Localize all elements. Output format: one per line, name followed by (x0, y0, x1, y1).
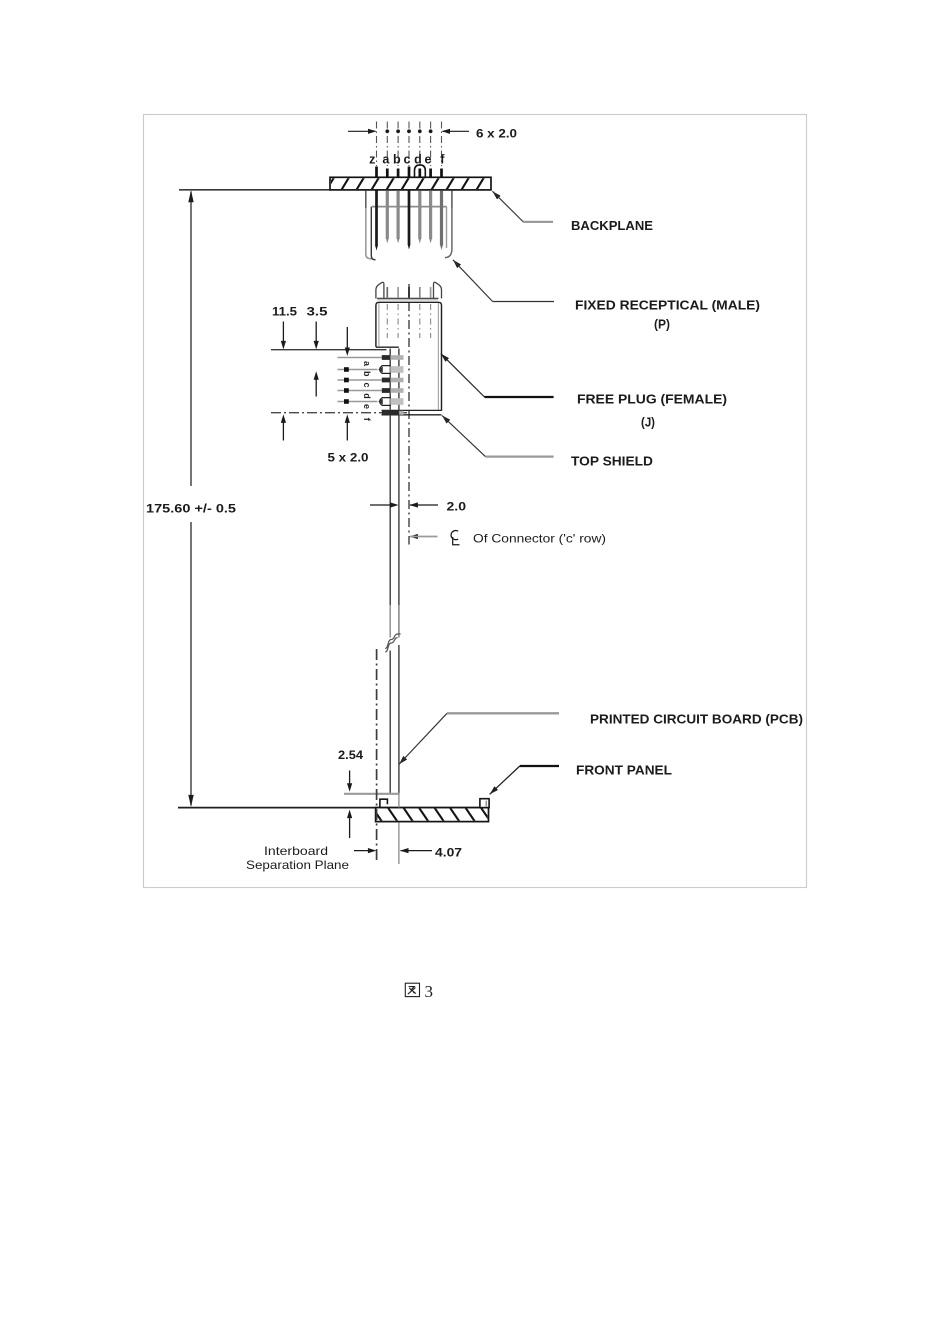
printed circuit board edges (389, 349, 391, 638)
svg-text:2.54: 2.54 (338, 748, 363, 762)
leader TOP SHIELD (442, 415, 450, 423)
centerline stubs in plug flange (386, 287, 388, 298)
female contact a (390, 355, 403, 360)
PCB bottom extension line (344, 793, 400, 795)
node centerline of connector c row (vertical dash-dot) (408, 284, 410, 545)
svg-text:3: 3 (425, 982, 434, 1001)
arrow 11.5 up (281, 414, 286, 423)
figure border frame (144, 115, 807, 888)
row f dash-dot reference line (271, 412, 408, 414)
backplane bar (hatched) (326, 177, 500, 191)
leader FRONT PANEL (490, 786, 498, 794)
pin centerlines z-f (upper dash-dot) (377, 122, 442, 167)
svg-text:6 x 2.0: 6 x 2.0 (476, 127, 517, 141)
svg-text:3.5: 3.5 (307, 305, 328, 319)
fixed receptacle shroud right wall (451, 191, 453, 209)
female contact c (390, 378, 403, 383)
female contact f (382, 410, 399, 415)
svg-text:5 x 2.0: 5 x 2.0 (328, 451, 369, 465)
front panel bar (hatched) (372, 807, 491, 822)
PCB break mark (385, 634, 400, 649)
svg-text:e: e (425, 153, 432, 167)
dimension 6 x 2.0 line (348, 130, 376, 132)
svg-text:PRINTED CIRCUIT BOARD (PCB): PRINTED CIRCUIT BOARD (PCB) (590, 712, 803, 727)
svg-text:Separation Plane: Separation Plane (246, 858, 349, 872)
svg-text:b: b (362, 371, 372, 377)
female contact e (bullet) (380, 398, 391, 406)
female contact b (bullet) (380, 366, 391, 374)
contact row lines (338, 358, 382, 402)
free plug right ear (434, 282, 442, 298)
svg-text:(J): (J) (641, 415, 655, 430)
dimension tick dots on centerlines (385, 129, 432, 133)
svg-text:c: c (362, 382, 372, 387)
pin tails above backplane (377, 167, 442, 178)
guide socket arch at row d (415, 165, 426, 177)
contact row reference line (top) (271, 349, 387, 351)
svg-text:4.07: 4.07 (435, 846, 462, 860)
svg-text:175.60 +/- 0.5: 175.60 +/- 0.5 (146, 502, 236, 516)
arrow 5x2.0 down (346, 327, 348, 350)
free plug step to contact area (376, 346, 399, 348)
separation plane centerline (vertical dash-dot) (376, 649, 378, 864)
arrow 5x2.0 up (345, 414, 350, 423)
svg-text:z: z (369, 153, 375, 167)
centerline symbol (451, 531, 458, 540)
svg-text:a: a (382, 153, 390, 167)
fixed receptacle insulator face (372, 206, 447, 208)
free plug top face (377, 297, 439, 299)
svg-text:TOP SHIELD: TOP SHIELD (571, 454, 653, 469)
extension line from backplane bottom to 175.60 dimension (179, 189, 330, 191)
svg-text:Interboard: Interboard (264, 844, 328, 858)
dimension line 175.60 vertical (190, 192, 192, 487)
svg-text:2.0: 2.0 (447, 500, 467, 514)
female contact d (390, 388, 403, 393)
dimension 4.07 (354, 850, 371, 852)
fixed receptacle shroud left wall (365, 191, 367, 209)
dimension 2.0 (370, 504, 393, 506)
svg-text:BACKPLANE: BACKPLANE (571, 218, 653, 233)
svg-text:b: b (393, 153, 401, 167)
free plug left ear (376, 282, 384, 298)
centerlines a-e inside free plug body (387, 304, 430, 338)
row junction dots (344, 367, 349, 404)
leader FREE PLUG (441, 354, 449, 362)
arrow 11.5 down (282, 322, 284, 344)
svg-text:FIXED RECEPTICAL (MALE): FIXED RECEPTICAL (MALE) (575, 298, 760, 313)
svg-text:FREE PLUG (FEMALE): FREE PLUG (FEMALE) (577, 392, 727, 407)
arrow 3.5 up (314, 371, 319, 380)
svg-text:f: f (440, 153, 445, 167)
leader BACKPLANE (492, 191, 500, 199)
contact letters a-f (rotated) (362, 361, 372, 422)
leader FIXED RECEPTICAL (453, 260, 461, 268)
svg-text:a: a (362, 361, 372, 367)
svg-text:(P): (P) (654, 317, 670, 332)
centerline callout arrow (409, 534, 418, 539)
caption glyph tu (figure) (405, 983, 419, 996)
leader PRINTED CIRCUIT BOARD (399, 756, 407, 764)
pin row labels z a b c d e f (369, 153, 445, 167)
interboard separation plane reference line (178, 807, 489, 809)
front panel right gasket block (480, 799, 489, 808)
svg-text:Of Connector ('c' row): Of Connector ('c' row) (473, 532, 606, 546)
svg-text:FRONT PANEL: FRONT PANEL (576, 763, 672, 778)
arrow 3.5 down (315, 322, 317, 344)
svg-text:11.5: 11.5 (272, 305, 297, 319)
PCB edge extension below panel (398, 823, 400, 865)
front panel left lip (380, 799, 388, 807)
svg-text:e: e (362, 404, 372, 409)
free plug body outline (376, 302, 442, 411)
svg-text:d: d (362, 393, 372, 399)
free plug bottom face (shield) (382, 409, 442, 411)
svg-text:f: f (362, 418, 372, 422)
male contact pins (375, 191, 378, 247)
svg-text:c: c (404, 153, 411, 167)
